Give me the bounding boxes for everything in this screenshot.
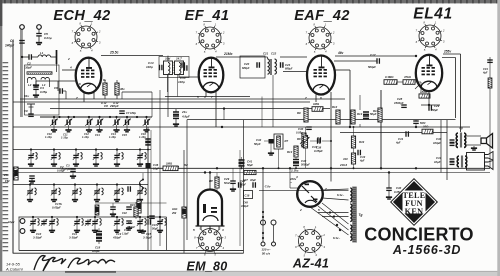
ground c2b: [29, 179, 35, 183]
capacitor C30 0.05µF: [306, 127, 312, 129]
tube U4 EL41: [416, 55, 442, 91]
inductor winding: [35, 188, 37, 195]
wire: [116, 95, 118, 99]
svg-text:C24: C24: [285, 63, 291, 67]
ground: [93, 162, 99, 166]
wire: [104, 95, 106, 99]
ground: [114, 228, 120, 232]
wire: [104, 80, 106, 83]
wire: [76, 217, 78, 220]
svg-text:L1: L1: [40, 51, 44, 55]
wire: [48, 80, 50, 88]
wire band rail y217: [19, 216, 167, 218]
resistor R19 10Ω: [422, 129, 433, 134]
svg-text:50pF: 50pF: [254, 142, 261, 146]
wire v244: [243, 120, 245, 240]
svg-text:47kΩ: 47kΩ: [403, 75, 412, 79]
wire: [116, 160, 118, 162]
wire: [53, 150, 55, 154]
svg-text:1-10p: 1-10p: [61, 136, 68, 140]
wire plate down right: [460, 54, 462, 132]
junction: [142, 179, 144, 181]
junction: [73, 116, 75, 118]
resistor R14: [378, 108, 382, 122]
svg-text:10µF: 10µF: [153, 167, 159, 171]
wire: [53, 195, 55, 197]
wire ift1 in: [167, 56, 169, 61]
wire: [244, 216, 263, 218]
wire: [68, 117, 70, 120]
wire: [289, 168, 291, 188]
trimmer capacitor: [93, 153, 99, 160]
svg-text:1-10p: 1-10p: [45, 135, 52, 139]
film edge left: [0, 0, 2, 276]
ground L2: [33, 83, 39, 87]
ground C43: [110, 212, 116, 216]
junction: [336, 224, 338, 226]
trimmer extra1: [41, 219, 47, 226]
svg-text:0.05µF: 0.05µF: [314, 149, 323, 153]
inductor winding: [102, 188, 104, 195]
svg-text:25.5c: 25.5c: [109, 51, 119, 55]
wire t4 spk a: [466, 135, 481, 137]
capacitor C28: [401, 105, 407, 107]
wire v151: [150, 130, 152, 251]
wire: [116, 125, 118, 128]
svg-text:40µF: 40µF: [239, 183, 246, 187]
svg-text:50 c/s: 50 c/s: [262, 252, 271, 256]
junction: [262, 211, 264, 213]
wire: [388, 190, 390, 195]
svg-text:Rd: Rd: [184, 163, 188, 167]
junction: [262, 167, 264, 169]
wire v184: [183, 150, 185, 254]
wire: [126, 125, 128, 128]
wire to tube2 grid: [179, 76, 199, 78]
svg-text:C22: C22: [271, 52, 277, 56]
wire: [95, 150, 97, 154]
inductor winding: [122, 153, 124, 160]
resistor: [182, 207, 186, 218]
wire: [146, 117, 148, 120]
wire v441: [440, 120, 442, 173]
capacitor C47b: [253, 182, 255, 188]
wire v148: [147, 127, 149, 251]
trimmer capacitor: [27, 189, 33, 196]
film perforation ticks left: [3, 62, 9, 63]
resistor R43: [351, 136, 355, 148]
capacitor: [145, 143, 151, 145]
svg-text:50µF: 50µF: [247, 163, 253, 167]
ground: [74, 228, 80, 232]
wire: [75, 150, 77, 154]
capacitor C32 50pF blob: [269, 139, 274, 144]
resistor: [277, 136, 281, 147]
svg-text:C2: C2: [60, 165, 64, 169]
wire antenna down: [21, 29, 23, 117]
svg-text:Tg: Tg: [359, 213, 363, 217]
wire: [415, 120, 417, 121]
wire: [116, 80, 118, 83]
svg-text:1MΩ: 1MΩ: [166, 162, 173, 166]
svg-text:0.01µ: 0.01µ: [44, 36, 52, 40]
capacitor C14 140pF: [185, 65, 187, 71]
svg-text:216.6: 216.6: [339, 163, 347, 167]
wire: [232, 168, 234, 181]
wire: [139, 185, 141, 189]
capacitor C2c: [70, 169, 76, 171]
svg-text:C8: C8: [104, 104, 108, 108]
junction: [415, 126, 417, 128]
resistor R20 1MΩ: [163, 166, 179, 171]
wire: [95, 160, 97, 162]
svg-text:C36: C36: [153, 163, 159, 167]
wire tube4 k down: [428, 92, 430, 106]
svg-text:C44: C44: [483, 67, 488, 71]
wire r7 down: [278, 149, 280, 168]
svg-text:R7: R7: [285, 139, 289, 143]
wire frame right corner: [243, 240, 245, 253]
svg-text:46v: 46v: [119, 87, 125, 91]
junction: [241, 167, 243, 169]
wire bottom frame inner: [13, 252, 244, 254]
svg-text:10µF: 10µF: [434, 160, 441, 164]
ground mid: [140, 229, 146, 233]
junction: [29, 183, 31, 185]
junction: [223, 107, 225, 109]
wire tube3 anode: [335, 69, 350, 71]
svg-text:L2: L2: [28, 83, 32, 87]
wire pot down: [305, 148, 307, 168]
svg-text:50nF: 50nF: [224, 181, 230, 185]
wire osc rail y117: [40, 116, 152, 118]
svg-text:C42: C42: [122, 211, 127, 215]
wire tube4 aux: [442, 57, 456, 59]
wire: [32, 217, 34, 220]
junction: [136, 116, 138, 118]
wire: [139, 160, 141, 162]
svg-text:AZ-41: AZ-41: [292, 257, 329, 271]
speaker SP1: [481, 134, 493, 149]
junction: [289, 167, 291, 169]
svg-text:61v: 61v: [24, 94, 29, 98]
wire: [187, 119, 456, 121]
wire antenna down2: [20, 29, 22, 117]
junction: [295, 167, 297, 169]
wire band rail y150: [13, 149, 151, 151]
svg-text:2: 2: [218, 226, 221, 230]
wire: [99, 117, 101, 120]
svg-text:C41: C41: [247, 160, 253, 164]
svg-text:C1: C1: [10, 39, 14, 43]
wire: [232, 183, 234, 187]
junction: [349, 126, 351, 128]
svg-text:C29: C29: [224, 177, 230, 181]
inductor winding: [122, 188, 124, 195]
trimmer capacitor: [92, 219, 98, 226]
coil core bar L2/L3: [27, 72, 52, 74]
resistor R10 1MΩ: [312, 107, 323, 112]
wire: [264, 140, 269, 142]
junction: [353, 126, 355, 128]
junction: [32, 216, 34, 218]
ground: [113, 128, 119, 132]
junction: [21, 56, 23, 58]
antenna terminal A1: [20, 25, 25, 30]
wire az41 left: [290, 187, 298, 189]
wire: [56, 64, 58, 72]
junction: [221, 126, 223, 128]
capacitor C14b: [182, 62, 184, 68]
tube U3 EAF-42: [307, 56, 335, 95]
capacitor: [293, 160, 299, 162]
resistor R3: [115, 83, 119, 95]
wire tube1 k: [83, 93, 85, 102]
svg-text:21v: 21v: [181, 110, 187, 114]
ground: [49, 228, 55, 232]
inductor winding: [82, 219, 84, 226]
wire: [135, 217, 137, 219]
wire: [98, 241, 100, 244]
ground c38: [386, 195, 392, 199]
junction: [53, 148, 55, 150]
junction: [333, 215, 335, 217]
svg-text:C15: C15: [122, 133, 127, 137]
junction: [262, 232, 264, 234]
wire: [53, 117, 55, 120]
capacitor C1 140pF: [19, 41, 25, 44]
svg-text:A.Caturni: A.Caturni: [5, 267, 23, 272]
svg-text:A-1566-3D: A-1566-3D: [392, 243, 461, 257]
wire az41 a2: [323, 198, 349, 200]
svg-text:500µF: 500µF: [368, 65, 376, 69]
capacitor C13 140pF: [160, 65, 162, 71]
wire: [29, 195, 31, 197]
svg-text:2: 2: [322, 233, 325, 237]
trimmer capacitor: [114, 219, 120, 226]
wire: [32, 56, 39, 58]
svg-text:50µF: 50µF: [432, 108, 438, 112]
junction: [388, 171, 390, 173]
junction: [88, 116, 90, 118]
transformer T4 output: [456, 133, 466, 148]
svg-text:40µF: 40µF: [249, 178, 256, 182]
svg-text:3-30pF: 3-30pF: [69, 236, 78, 240]
ground: [86, 128, 92, 132]
svg-text:C33: C33: [360, 155, 366, 159]
wire: [96, 185, 98, 189]
resistor: [303, 136, 307, 148]
IF transformer T1 can: [159, 57, 189, 78]
svg-text:1.0µF: 1.0µF: [122, 232, 129, 236]
wire: [267, 57, 269, 59]
junction: [147, 216, 149, 218]
wire: [116, 150, 118, 154]
junction: [126, 116, 128, 118]
svg-text:Tg: Tg: [459, 126, 463, 130]
svg-text:410: 410: [342, 157, 348, 161]
capacitor C17 500µF: [377, 58, 379, 64]
wire: [98, 228, 100, 231]
junction: [67, 116, 69, 118]
trimmer capacitor: [94, 189, 100, 196]
wire: [29, 185, 31, 189]
wire rail B+ y99: [20, 98, 345, 100]
svg-text:0.05µF: 0.05µF: [52, 206, 61, 210]
wire v331: [330, 92, 332, 168]
trimmer capacitor x54: [50, 119, 58, 126]
IF transformer T2: [240, 56, 265, 78]
capacitor C7 180pF: [119, 111, 125, 113]
trimmer capacitor: [114, 153, 120, 160]
wire: [116, 117, 118, 120]
svg-text:2: 2: [67, 57, 70, 61]
junction: [142, 187, 144, 189]
capacitor: [450, 162, 455, 164]
svg-text:24v: 24v: [3, 173, 9, 177]
junction: [145, 116, 147, 118]
ground: [157, 228, 163, 232]
svg-text:30pF: 30pF: [25, 66, 32, 70]
capacitor C47: [148, 219, 150, 225]
winding hv: [350, 204, 352, 222]
ground: [124, 128, 130, 132]
junction: [159, 216, 161, 218]
capacitor C42: [126, 207, 132, 209]
svg-text:C29: C29: [434, 104, 440, 108]
capacitor C33 5000pF: [413, 121, 419, 123]
wire tube2 k: [205, 92, 207, 97]
wire: [186, 120, 188, 240]
capacitor C33 4µF: [358, 150, 360, 156]
trimmer capacitor: [28, 153, 34, 160]
svg-text:R13: R13: [287, 150, 293, 154]
capacitor C38 0.05µF: [386, 188, 392, 190]
svg-text:MP: MP: [209, 179, 213, 183]
svg-text:2: 2: [299, 208, 302, 212]
wire: [75, 160, 77, 162]
tube U6 AZ-41 rectifier: [297, 181, 323, 207]
svg-text:C30: C30: [298, 127, 304, 131]
wire band rail y184: [13, 184, 148, 186]
svg-text:R13: R13: [357, 112, 363, 116]
wire ift2 in: [257, 56, 268, 58]
junction: [147, 149, 149, 151]
capacitor: [173, 112, 179, 114]
capacitor: [173, 116, 179, 118]
wire v490: [489, 57, 491, 168]
capacitor C6: [60, 88, 62, 94]
wire c19 down: [147, 145, 149, 163]
resistor R23: [134, 207, 138, 217]
wire rail y132: [340, 132, 447, 134]
ground C4: [33, 93, 39, 97]
capacitor C36: [126, 221, 132, 223]
trimmer extra2: [85, 219, 91, 226]
edge bottom: [0, 272, 500, 276]
svg-text:4.8µF: 4.8µF: [181, 115, 190, 119]
ground: [28, 162, 34, 166]
svg-text:~: ~: [290, 181, 292, 185]
socket ECH-42: [74, 25, 98, 49]
inductor winding: [122, 219, 124, 226]
wire: [116, 195, 118, 197]
junction: [278, 167, 280, 169]
wire: [397, 81, 403, 83]
wire heater y216: [322, 216, 349, 218]
wire: [322, 203, 349, 224]
wire: [112, 209, 114, 212]
wire: [146, 125, 148, 128]
svg-text:2: 2: [442, 28, 445, 32]
wire: [51, 56, 57, 58]
resistor R27: [488, 78, 492, 88]
wire tube1 g1: [58, 80, 76, 82]
terminal PU1: [20, 219, 25, 224]
resistor R18 180Ω: [419, 94, 430, 98]
trimmer capacitor: [74, 219, 80, 226]
svg-text:2W: 2W: [171, 211, 177, 215]
wire: [310, 140, 318, 142]
antenna filter can box: [25, 65, 60, 115]
wire fan3: [310, 207, 349, 235]
terminal PU2: [20, 229, 25, 234]
wire v224: [223, 109, 225, 120]
aux antenna FM: [27, 104, 35, 114]
capacitor C23 left: [257, 62, 259, 68]
trimmer capacitor x127: [123, 119, 131, 126]
wire rail y172 grey: [13, 172, 490, 174]
wire: [32, 226, 34, 229]
svg-text:2.1kc: 2.1kc: [290, 168, 299, 172]
junction: [330, 167, 332, 169]
capacitor C37b: [128, 186, 130, 192]
wire g1 row: [36, 80, 58, 82]
wire: [74, 185, 76, 189]
wire: [139, 217, 141, 220]
wire: [334, 60, 377, 62]
wire: [250, 56, 257, 58]
svg-text:ECH_42: ECH_42: [53, 8, 110, 24]
svg-text:FM: FM: [5, 179, 10, 183]
svg-text:C9: C9: [24, 109, 28, 113]
capacitor: [96, 235, 102, 237]
svg-text:6.3v~: 6.3v~: [333, 236, 340, 240]
ground: [65, 128, 71, 132]
wire: [139, 150, 141, 154]
svg-text:430pF: 430pF: [112, 236, 121, 240]
wire az41 a1: [323, 189, 349, 190]
trimmer capacitor: [30, 219, 36, 226]
capacitor: [145, 139, 151, 141]
trimmer capacitor x68.5: [65, 119, 73, 126]
svg-text:EF_41: EF_41: [185, 8, 230, 24]
wire: [322, 140, 331, 142]
wire: [241, 166, 243, 168]
inductor winding: [165, 219, 167, 226]
wire: [35, 81, 37, 87]
svg-text:140p: 140p: [178, 80, 185, 84]
inductor winding: [81, 153, 83, 160]
wire: [35, 89, 37, 93]
wire rail y102: [13, 101, 310, 103]
capacitor C2b: [29, 176, 35, 178]
wire: [159, 217, 161, 220]
transformer T3 power core: [352, 187, 356, 243]
capacitor C41b 10µF: [450, 159, 455, 161]
capacitor: [293, 163, 299, 165]
svg-text:2: 2: [222, 30, 225, 34]
